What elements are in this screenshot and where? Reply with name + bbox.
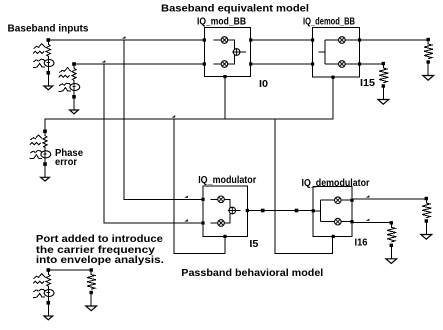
wire V4: BUS down to IQ_demodulator LO pin [275,119,333,253]
svg-text:IQ_modulator: IQ_modulator [198,174,256,186]
wire BUS: phase error to demod_BB LO, y=119 [45,77,333,131]
junction tick on W2 [102,60,106,62]
ground of resistor R_carrier [86,306,97,311]
ground of port/source SRC4 (carrier) [44,316,53,320]
LO pin IQ_demodulator [332,235,335,238]
waveform icon of phase error source [30,135,42,140]
pin2 IQ_modulator [201,221,204,224]
svg-text:I0: I0 [259,78,268,90]
RF in pin IQ_demodulator [312,209,315,212]
splitter demod_BB [324,40,326,64]
combiner in IQ_mod_BB [233,49,240,56]
LO pin IQ_mod_BB [223,75,226,78]
path M6 to combiner [224,213,230,223]
svg-text:I15: I15 [360,77,375,89]
svg-text:Passband behavioral model: Passband behavioral model [181,267,323,279]
ground of resistor R2 (Q termination) [378,100,389,105]
subcircuit box IQ_demod_BB [313,28,360,78]
pin1 IQ_demod_BB [311,38,314,41]
M8 to output pin [341,221,352,223]
input stub demod_BB [319,51,325,53]
wire W5: demod_BB I out to R1 [360,39,429,41]
svg-text:IQ_demod_BB: IQ_demod_BB [303,16,355,28]
resistor R3 [425,197,428,200]
pin2 IQ_demod_BB [311,62,314,65]
pin1 IQ_mod_BB [203,38,206,41]
pin3 IQ_demod_BB [358,38,361,41]
waveform icon of source SRC2 [59,68,71,73]
ground of source SRC3 (phase error) [41,177,50,181]
ground of resistor R3 [421,235,432,240]
ground of source SRC1 (I baseband input) [44,86,53,90]
pin4 IQ_demod_BB [358,62,361,65]
wire W9: demodulator Q out to R4 [352,221,391,223]
tick on W9 [366,219,370,221]
stub to I mixer [214,39,222,41]
wire W7: modulator RF to demodulator RF [247,210,313,212]
junction tick on W1 [122,36,126,38]
resistor R_carrier [90,268,93,271]
waveform icon of carrier port source [34,274,46,279]
svg-text:Baseband equivalent model: Baseband equivalent model [161,3,309,15]
subcircuit box IQ_mod_BB [204,28,250,77]
tick on W8 [366,195,370,197]
junction tick on BUS at x=174 [172,115,176,117]
junction dot on W7 at x=263 [261,209,265,213]
svg-text:Baseband inputs: Baseband inputs [8,23,89,35]
pin4 IQ_mod_BB [249,62,252,65]
mixer M7 in IQ_demodulator [335,197,342,204]
subcircuit box IQ_demodulator [313,187,352,237]
ground of resistor R1 (I termination) [423,76,434,81]
mixer M3 in IQ_demod_BB [339,37,346,44]
wire W3: mod_BB to demod_BB (I) [251,39,313,41]
stub to mixer M5 [211,198,218,200]
stub to Q mixer [214,63,222,65]
mixer M2 in IQ_mod_BB [221,61,228,68]
wire carrier-node [48,269,91,271]
branch to mixer M4 [325,63,339,65]
junction dot on W7 at x=296 [295,209,299,213]
M7 to output pin [341,199,352,201]
svg-text:IQ_mod_BB: IQ_mod_BB [197,16,246,28]
waveform icon of source SRC1 [34,44,46,49]
svg-text:into envelope analysis.: into envelope analysis. [36,254,164,266]
port/source SRC4 (carrier) [47,268,51,272]
path M5 to combiner [224,199,230,207]
I out pin IQ_demodulator [350,199,353,202]
LO pin IQ_demod_BB [331,76,334,79]
Q out pin IQ_demodulator [350,220,353,223]
wire V1: W1 junction down to IQ_modulator pin1 [124,40,203,199]
mixer M4 in IQ_demod_BB [339,61,346,68]
RF out pin IQ_modulator [246,209,249,212]
wire W2: SRC2 to IQ_mod_BB pin2 [74,63,204,65]
wire: IQ_mod_BB LO pin down to BUS [224,77,226,119]
resistor R2 (Q termination) [382,62,385,65]
svg-text:IQ_demodulator: IQ_demodulator [302,177,370,189]
wire W4: mod_BB to demod_BB (Q) [251,63,313,65]
tick on V2 near IQ_modulator pin2 [184,219,188,221]
mixer M8 in IQ_demodulator [335,218,342,225]
source SRC1 (I baseband input) [47,38,51,42]
mixer M6 in IQ_modulator [218,220,225,227]
svg-text:I5: I5 [249,238,258,250]
svg-text:error: error [55,156,77,168]
M3 to output pin [345,39,359,41]
combiner in IQ_modulator [229,207,236,214]
wire W8: demodulator I out to R3 [352,198,426,200]
subcircuit box IQ_modulator [203,186,247,236]
wire V3: BUS down to IQ_modulator LO pin [174,119,225,253]
svg-text:I16: I16 [355,236,368,248]
wire W1: SRC1 to IQ_mod_BB pin1 [48,39,204,41]
wire V2: W2 junction down to IQ_modulator pin2 [104,64,203,223]
wire W6: demod_BB Q out to R2 [360,63,384,65]
pin3 IQ_mod_BB [249,38,252,41]
source SRC2 (Q baseband input) [72,62,76,66]
branch to mixer M3 [325,39,339,41]
M4 to output pin [345,63,359,65]
tick on V1 near IQ_modulator pin1 [184,196,188,198]
LO pin IQ_modulator [223,235,226,238]
resistor R1 (I termination) [427,38,430,41]
combiner output stub [240,51,246,53]
mixer M5 in IQ_modulator [218,196,225,203]
mixer M1 in IQ_mod_BB [221,37,228,44]
resistor R4 [390,221,393,224]
pin1 IQ_modulator [201,198,204,201]
branch to mixer M7 [321,199,335,201]
ground of source SRC2 (Q baseband input) [70,110,79,114]
branch to mixer M8 [321,221,335,223]
source SRC3 (phase error) [43,130,47,134]
input stub IQ_demodulator [313,210,320,212]
path M2 to combiner [228,55,235,64]
splitter IQ_demodulator [320,200,322,222]
ground of resistor R4 [386,259,397,264]
stub to mixer M6 [211,222,218,224]
combiner output stub [236,210,241,212]
pin2 IQ_mod_BB [203,62,206,65]
path M1 to combiner [228,40,235,49]
